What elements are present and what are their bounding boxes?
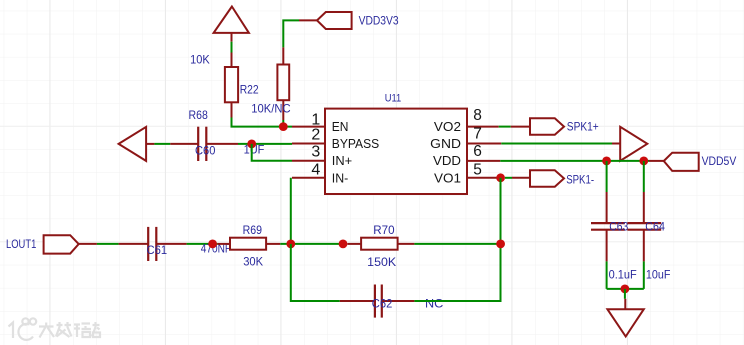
port flag SPK1+ [511,118,599,135]
svg-text:VO2: VO2 [434,120,461,134]
svg-text:R69: R69 [243,223,262,237]
wire R69 to node [280,243,343,245]
wire C61 to R69 [187,243,218,245]
junction node VDD-C63 [602,157,611,166]
svg-text:VDD3V3: VDD3V3 [359,14,399,28]
svg-text:NC: NC [425,296,444,310]
svg-text:30K: 30K [243,255,263,269]
svg-text:3: 3 [311,143,320,160]
power symbol triangle (top) [214,7,249,42]
wire power to R22 [231,42,233,53]
junction node R70-left [339,240,348,249]
svg-text:BYPASS: BYPASS [332,137,379,151]
wire IN- vertical [290,178,292,244]
svg-text:7: 7 [473,126,482,143]
svg-text:IN+: IN+ [332,154,352,168]
power flag VDD3V3 [317,12,399,29]
svg-text:10uF: 10uF [646,268,671,282]
junction node BYPASS [247,140,256,149]
wire bottom feedback right [414,300,501,302]
capacitor C63 [591,161,637,289]
ground [607,299,643,337]
wire VO1 to SPK1- [505,177,512,179]
port flag SPK1- [512,170,594,187]
svg-text:VDD5V: VDD5V [702,154,737,168]
wire BYPASS node to IN+ [252,144,292,161]
junction node LOUT [208,240,217,249]
svg-text:C63: C63 [609,220,628,234]
resistor R69 [217,223,280,269]
junction node GND [621,285,630,294]
wire VO1 vertical [500,178,502,301]
svg-text:C60: C60 [195,143,216,157]
svg-text:IN-: IN- [332,171,349,185]
junction node VDD-C64 [639,157,648,166]
svg-text:10K/NC: 10K/NC [251,102,291,116]
op-amp U11 [292,93,501,194]
svg-text:C62: C62 [372,297,393,311]
svg-text:4: 4 [311,161,320,178]
svg-text:C61: C61 [147,243,168,257]
svg-text:150K: 150K [367,255,396,269]
wire GND to right triangle [501,143,612,145]
resistor R2 10K/NC [251,47,291,126]
svg-text:6: 6 [473,143,482,160]
svg-text:2: 2 [311,127,320,144]
port flag LOUT1 [6,235,97,253]
svg-text:8: 8 [473,107,482,124]
input port triangle (left) [119,127,155,161]
capacitor C64 [627,161,670,289]
wire VDD rail [500,160,649,162]
svg-text:LOUT1: LOUT1 [6,237,36,251]
wire R22 to EN node [232,118,293,127]
junction node VO1 [496,173,505,182]
svg-text:U11: U11 [385,93,402,105]
svg-text:R70: R70 [373,223,395,237]
wire C60 to BYPASS [238,143,292,145]
wire IN- corner [290,244,292,302]
watermark logo [9,318,101,340]
capacitor C61 [119,227,187,261]
junction node EN [279,122,288,131]
wire VDD3V3 net top [283,20,317,47]
svg-text:SPK1-: SPK1- [566,172,594,186]
capacitor C62 [340,285,444,318]
wire VO2 to SPK1+ [499,126,511,128]
svg-text:C64: C64 [645,220,665,234]
svg-text:R22: R22 [240,83,259,97]
wire R70 to VO1 node [414,243,500,245]
svg-text:10K: 10K [190,52,210,66]
junction node IN- [286,240,295,249]
capacitor C60 [170,108,238,161]
svg-text:GND: GND [430,137,461,151]
power flag VDD5V [649,153,736,171]
svg-text:SPK1+: SPK1+ [567,120,599,134]
svg-text:EN: EN [332,120,349,134]
wire triangle to C60 [154,143,170,145]
wire caps bottom [607,288,644,290]
buffer triangle (right) [612,127,647,161]
resistor R70 [347,223,414,269]
svg-text:5: 5 [473,162,482,179]
wire LOUT1 to C61 [97,243,119,245]
svg-text:0.1uF: 0.1uF [609,268,637,282]
svg-text:VO1: VO1 [434,171,461,185]
wire to ground [624,289,626,299]
junction node R70-right [496,240,505,249]
svg-text:VDD: VDD [433,154,461,168]
svg-text:R68: R68 [189,108,209,122]
resistor R22 [190,52,259,117]
wire bottom feedback left [291,300,340,302]
